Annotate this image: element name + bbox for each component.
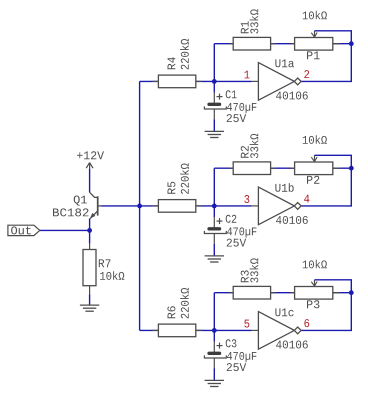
op-amp U1a 40106 <box>252 80 259 82</box>
transistor Q1 BC182 <box>90 192 95 197</box>
node pot junction U1c <box>349 290 354 295</box>
resistor R2 33k <box>230 167 233 169</box>
potentiometer P1 10k <box>290 43 294 45</box>
capacitor C3 470uF <box>213 342 215 352</box>
resistor R7 10k <box>89 244 91 250</box>
resistor R1 33k <box>230 43 233 45</box>
node junction U1a input <box>213 44 215 93</box>
wire feedback row U1c <box>214 292 351 294</box>
resistor R5 220k <box>152 205 158 207</box>
op-amp U1c 40106 <box>252 329 259 331</box>
wire C3 to ground <box>213 368 215 380</box>
wire row U1c <box>140 329 252 331</box>
wire wiper P2 <box>315 155 352 168</box>
node pot junction U1b <box>349 166 354 171</box>
pin 3 <box>244 195 249 203</box>
wire Out to junction <box>40 229 90 231</box>
ground <box>205 379 224 381</box>
junction base/bus <box>137 204 142 209</box>
ground <box>205 130 224 132</box>
Out tag <box>8 225 40 235</box>
wire junction to R7 <box>89 230 91 243</box>
wire C1 to ground <box>213 119 215 131</box>
resistor R6 220k <box>152 329 158 331</box>
node pot junction U1a <box>349 41 354 46</box>
wire output U1a feedback <box>301 44 351 82</box>
wire feedback row U1a <box>214 43 351 45</box>
pin 5 <box>244 320 249 328</box>
potentiometer P3 10k <box>290 292 294 294</box>
node junction U1c input <box>213 293 215 342</box>
wire row U1b <box>140 205 252 207</box>
wire left bus vertical <box>139 81 141 330</box>
node Out junction <box>87 228 92 233</box>
wire row U1a <box>140 80 252 82</box>
op-amp U1b 40106 <box>252 205 259 207</box>
wire output U1c feedback <box>301 293 351 331</box>
ground <box>80 304 99 306</box>
potentiometer P2 10k <box>290 167 294 169</box>
wire collector to +12V <box>89 169 91 193</box>
node junction U1b input <box>213 168 215 217</box>
supply +12V symbol <box>89 163 91 169</box>
wire C2 to ground <box>213 244 215 256</box>
wire feedback row U1b <box>214 167 351 169</box>
resistor R3 33k <box>230 292 233 294</box>
pin 4 <box>304 195 309 203</box>
ground <box>205 255 224 257</box>
wire R7 to ground <box>89 294 91 305</box>
pin 2 <box>304 70 309 78</box>
capacitor C1 470uF <box>213 93 215 103</box>
pin 1 <box>245 71 250 79</box>
wire wiper P1 <box>315 31 352 44</box>
pin 6 <box>304 319 309 327</box>
resistor R4 220k <box>152 80 158 82</box>
wire output U1b feedback <box>301 168 351 206</box>
capacitor C2 470uF <box>213 217 215 227</box>
wire base to bus <box>102 205 140 207</box>
wire wiper P3 <box>315 280 352 293</box>
wire emitter down <box>89 218 91 230</box>
